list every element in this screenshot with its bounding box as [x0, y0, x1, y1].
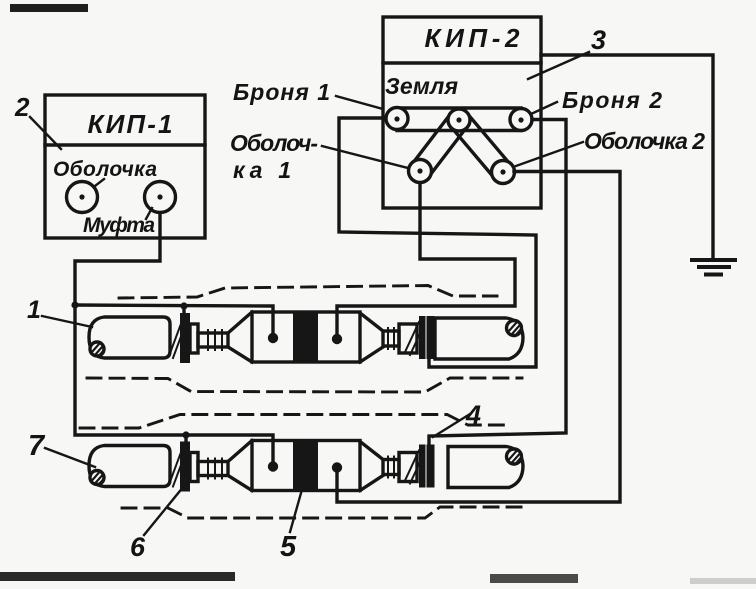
svg-text:4: 4: [465, 400, 481, 430]
svg-text:6: 6: [130, 532, 146, 562]
svg-text:2: 2: [14, 92, 30, 122]
svg-text:ка 1: ка 1: [233, 157, 291, 183]
svg-text:КИП-1: КИП-1: [88, 109, 173, 139]
svg-text:Земля: Земля: [385, 73, 458, 99]
svg-text:Оболоч-: Оболоч-: [230, 130, 318, 156]
svg-text:Броня 1: Броня 1: [233, 79, 330, 105]
svg-text:Броня 2: Броня 2: [562, 87, 662, 113]
svg-text:Оболочка 2: Оболочка 2: [584, 128, 705, 154]
svg-text:Оболочка: Оболочка: [53, 158, 157, 181]
svg-text:КИП-2: КИП-2: [425, 23, 521, 53]
svg-text:3: 3: [591, 25, 606, 55]
svg-text:1: 1: [27, 296, 41, 324]
svg-text:5: 5: [280, 531, 297, 563]
svg-text:Муфта: Муфта: [83, 214, 155, 237]
svg-text:7: 7: [28, 430, 46, 462]
